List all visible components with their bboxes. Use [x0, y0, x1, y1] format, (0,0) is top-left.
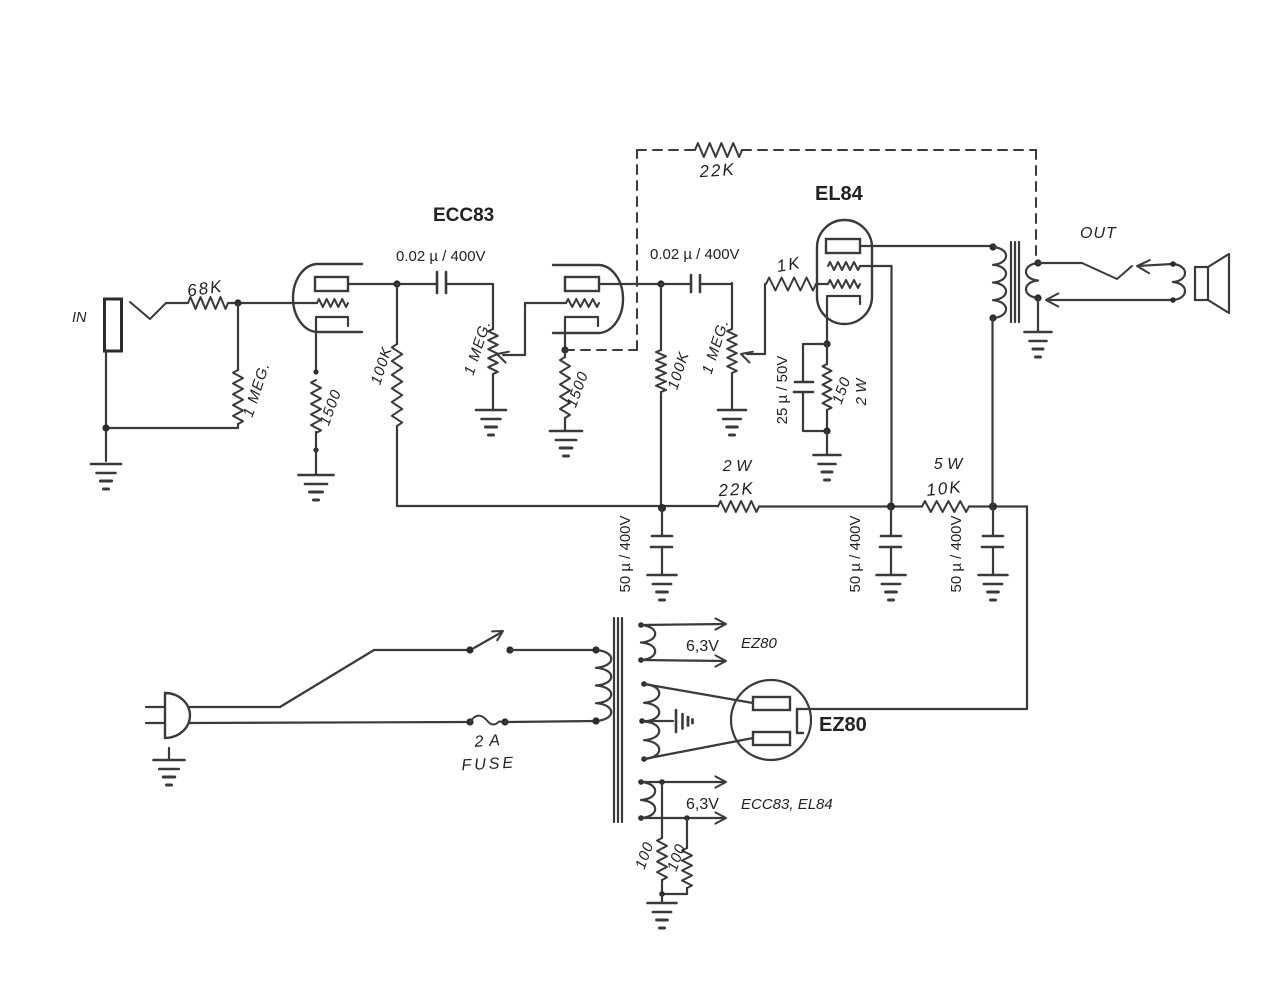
svg-text:50 µ / 400V: 50 µ / 400V: [948, 515, 965, 592]
svg-text:EL84: EL84: [815, 183, 864, 205]
ground input: [91, 464, 121, 489]
node HV bottom: [641, 756, 647, 762]
label 2A: [473, 732, 502, 751]
triode V1b cathode: [565, 317, 598, 350]
label 1K: [775, 253, 803, 276]
transformer OT primary: [993, 247, 1006, 318]
label 100K: [368, 344, 396, 386]
node filter1: [658, 504, 666, 512]
transformer PT HV winding: [644, 684, 659, 759]
EZ80 cathode: [797, 709, 803, 733]
node: [638, 657, 644, 663]
EZ80 plate 2: [753, 732, 790, 745]
wire: [661, 894, 663, 903]
node filter3: [989, 503, 997, 511]
svg-text:22K: 22K: [717, 479, 755, 501]
label 0.02u/400V: [650, 246, 740, 263]
label EL84: [815, 183, 864, 205]
label 1 MEG.: [461, 318, 495, 377]
potentiometer 1MEG volume: [488, 284, 498, 410]
node plate V1a: [393, 280, 400, 287]
wire plate V1a: [348, 283, 397, 285]
label 100: [632, 839, 658, 871]
label 100: [664, 841, 690, 873]
svg-text:ECC83, EL84: ECC83, EL84: [741, 796, 833, 813]
ground filter1: [648, 575, 677, 600]
wire heater arrow: [641, 618, 726, 629]
rectifier EZ80 envelope: [731, 680, 811, 760]
node HV top: [641, 681, 647, 687]
transformer OT secondary: [1026, 263, 1038, 298]
node: [638, 779, 644, 785]
node: [638, 622, 644, 628]
wire cathode to B+: [797, 708, 1027, 710]
wire: [106, 351, 238, 461]
wire OUT jack: [1038, 263, 1132, 279]
wire HV to plate1: [644, 684, 753, 703]
node humdinger b: [684, 815, 690, 821]
capacitor 50u/400V filter3: [982, 507, 1003, 575]
label 68K: [186, 277, 225, 301]
pentode plate: [826, 239, 860, 253]
node: [638, 815, 644, 821]
svg-text:10K: 10K: [925, 477, 963, 500]
input jack J1: [105, 299, 122, 351]
node cathode V1b: [561, 346, 568, 353]
node: [659, 891, 665, 897]
label 1500: [316, 387, 345, 428]
wire: [315, 432, 317, 474]
label 100K: [665, 349, 693, 391]
label 1 MEG.: [240, 360, 274, 419]
ground heater center: [648, 903, 677, 928]
capacitor 50u/400V filter1: [651, 508, 672, 575]
arrow speaker top: [1137, 260, 1172, 273]
svg-text:2 W: 2 W: [853, 377, 870, 407]
speaker voice coil: [1173, 264, 1185, 300]
wire: [166, 302, 188, 304]
wire: [505, 721, 596, 722]
node PT primary bottom: [592, 717, 599, 724]
pentode screen grid g2: [828, 262, 860, 270]
triode V1b grid: [566, 299, 599, 307]
resistor 1500 cathode V1b: [560, 350, 570, 431]
ground cathode EL84: [814, 455, 841, 480]
svg-text:6,3V: 6,3V: [686, 638, 719, 655]
label EZ80 winding: [741, 635, 778, 652]
ground chassis plug: [154, 748, 185, 785]
triode V1a plate: [315, 277, 348, 291]
node OT sec bottom: [1034, 294, 1041, 301]
switch arm: [474, 631, 503, 648]
label OUT: [1080, 225, 1117, 242]
wire heater arrow: [641, 776, 726, 787]
resistor 100K plate V1b: [656, 284, 666, 507]
ground pot2: [718, 410, 746, 435]
node junction: [102, 424, 109, 431]
resistor 1MEG grid: [233, 303, 243, 428]
arrow speaker bottom: [1046, 293, 1173, 306]
feedback wire dashed bottom: [565, 349, 637, 351]
resistor 1K grid stopper: [765, 278, 828, 355]
resistor 68K: [188, 297, 228, 309]
ground pot1: [476, 410, 506, 435]
node label IN: [72, 310, 87, 326]
label 1 MEG.: [699, 317, 733, 376]
wire OT primary to B+: [991, 318, 993, 507]
speaker: [1195, 254, 1229, 313]
transformer PT primary: [596, 650, 611, 721]
svg-text:25 µ / 50V: 25 µ / 50V: [774, 356, 791, 425]
node switch contact: [506, 646, 513, 653]
node: [823, 427, 830, 434]
wire heater arrow: [641, 655, 726, 666]
node: [313, 447, 318, 452]
node PT primary top: [592, 646, 599, 653]
wire wiper to grid V1b: [525, 303, 566, 355]
ground filter2: [877, 575, 906, 600]
label 50u/400V: [948, 515, 965, 592]
svg-text:2 A: 2 A: [473, 732, 502, 751]
label 10K: [925, 477, 963, 500]
feedback wire dashed top: [637, 149, 1036, 151]
potentiometer 1MEG volume 2: [727, 283, 737, 410]
label 25u/50V: [774, 356, 791, 425]
wire centertap: [644, 720, 673, 722]
label 22K: [698, 160, 736, 182]
resistor 150 cathode: [823, 344, 832, 431]
label 2W: [853, 377, 870, 407]
resistor 22K feedback: [695, 143, 742, 157]
wire plate EL84 to OT: [860, 245, 993, 247]
svg-text:IN: IN: [72, 310, 87, 326]
capacitor 50u/400V filter2: [880, 507, 901, 575]
node switch contact: [466, 646, 473, 653]
wire HV to plate2: [644, 738, 753, 759]
triode V1b envelope: [553, 265, 623, 333]
EZ80 plate 1: [753, 697, 790, 710]
label 6,3V: [686, 796, 719, 813]
resistor 100 humdinger b: [662, 818, 692, 894]
node filter2: [887, 503, 895, 511]
svg-text:22K: 22K: [698, 160, 736, 182]
svg-text:2 W: 2 W: [722, 458, 753, 475]
label ECC83 EL84 winding: [741, 796, 833, 813]
wire: [510, 649, 596, 651]
svg-text:ECC83: ECC83: [433, 205, 494, 226]
svg-text:50 µ / 400V: 50 µ / 400V: [847, 515, 864, 592]
svg-text:50 µ / 400V: 50 µ / 400V: [617, 515, 634, 592]
resistor 100 humdinger a: [657, 782, 667, 894]
node OT sec top: [1034, 259, 1041, 266]
label FUSE: [461, 755, 516, 775]
capacitor 25u/50V cathode: [794, 344, 827, 431]
triode V1a cathode: [316, 317, 348, 372]
triode V1a envelope: [293, 264, 362, 332]
capacitor 0.02u coupling C2: [661, 275, 732, 292]
pentode control grid g1: [828, 280, 860, 288]
label 50u/400V: [617, 515, 634, 592]
wire B+ to rectifier: [1026, 507, 1028, 710]
svg-text:EZ80: EZ80: [819, 714, 867, 736]
mains plug: [165, 693, 190, 738]
node OT primary bottom: [989, 314, 996, 321]
svg-text:EZ80: EZ80: [741, 635, 778, 652]
feedback wire dashed right: [1035, 150, 1037, 258]
mains plug prongs: [146, 707, 165, 723]
svg-text:FUSE: FUSE: [461, 755, 516, 775]
wire: [228, 302, 317, 304]
label 50u/400V: [847, 515, 864, 592]
transformer PT heater winding 2: [641, 782, 655, 818]
node HV centertap: [639, 718, 645, 724]
label EZ80: [819, 714, 867, 736]
transformer OT core: [1011, 242, 1019, 322]
transformer PT core: [614, 618, 622, 822]
pentode EL84 envelope: [817, 220, 872, 324]
ground cathode V1b: [550, 431, 582, 456]
ground filter3: [979, 575, 1008, 600]
node humdinger a: [659, 779, 665, 785]
svg-text:6,3V: 6,3V: [686, 796, 719, 813]
capacitor 0.02u coupling C1: [397, 272, 493, 293]
node plate V1b: [657, 280, 664, 287]
svg-text:5 W: 5 W: [934, 456, 964, 473]
resistor 22K B+: [718, 501, 759, 512]
pot2 wiper arrow: [741, 352, 765, 363]
resistor 100K plate V1a: [392, 284, 402, 506]
label 2W: [722, 458, 753, 475]
svg-text:OUT: OUT: [1080, 225, 1117, 242]
ground centertap: [676, 710, 693, 732]
wire heater arrow: [641, 812, 726, 823]
pentode cathode: [827, 296, 860, 344]
pot1 wiper arrow: [497, 352, 525, 363]
node: [1170, 261, 1176, 267]
wire mains lower: [189, 722, 470, 723]
resistor 10K B+: [922, 501, 969, 512]
wire B+ rail: [397, 505, 1027, 508]
node fuse: [466, 718, 473, 725]
resistor 1500 cathode V1a: [311, 380, 321, 433]
label 150: [829, 374, 855, 406]
node: [313, 369, 318, 374]
wire: [1037, 298, 1039, 331]
transformer PT heater winding EZ80: [641, 625, 655, 660]
wire plate V1b: [599, 283, 661, 285]
feedback wire dashed left: [636, 150, 638, 350]
triode V1b plate: [565, 277, 599, 291]
jack tip contact: [130, 302, 166, 319]
node: [1170, 297, 1176, 303]
label 5W: [934, 456, 964, 473]
label 6,3V: [686, 638, 719, 655]
svg-text:0.02 µ / 400V: 0.02 µ / 400V: [650, 246, 740, 263]
node cathode EL84: [823, 340, 830, 347]
wire mains upper: [188, 650, 470, 707]
node fuse: [501, 718, 508, 725]
label 1500: [563, 369, 592, 410]
label 0.02u/400V: [396, 248, 486, 265]
ground OT secondary: [1025, 332, 1052, 357]
node junction: [234, 299, 241, 306]
label ECC83: [433, 205, 494, 226]
node OT primary top: [989, 243, 996, 250]
triode V1a grid: [317, 299, 348, 307]
wire screen to B+: [860, 266, 892, 507]
svg-text:0.02 µ / 400V: 0.02 µ / 400V: [396, 248, 486, 265]
wire: [826, 431, 828, 455]
fuse 2A: [470, 716, 505, 725]
label 22K: [717, 479, 755, 501]
ground cathode V1a: [299, 475, 334, 500]
